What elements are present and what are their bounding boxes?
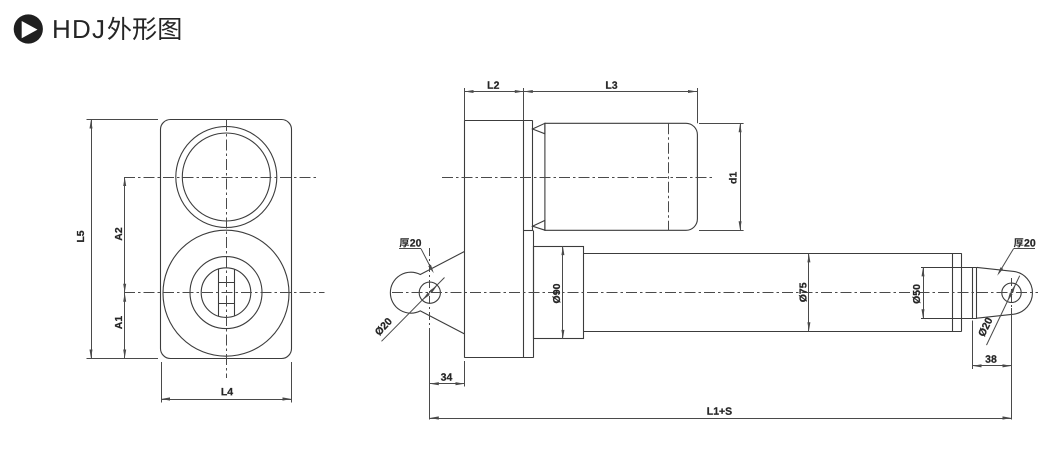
motor body (545, 123, 698, 230)
piston rod (921, 268, 977, 319)
front hole vertical centerline (1011, 278, 1013, 308)
rear hole vertical centerline (429, 248, 431, 330)
svg-text:38: 38 (985, 354, 997, 366)
main axis centerline (392, 292, 1038, 294)
svg-text:34: 34 (441, 372, 453, 384)
svg-text:L3: L3 (605, 80, 617, 92)
lower boss outer circle (163, 230, 289, 356)
dimension L2 (465, 80, 524, 121)
svg-text:L4: L4 (221, 386, 233, 398)
lower bore circle (201, 268, 251, 318)
dimension L5 (75, 120, 158, 359)
svg-text:d1: d1 (727, 172, 739, 184)
gearbox cylinder (534, 247, 584, 339)
svg-text:Ø90: Ø90 (551, 283, 563, 303)
svg-text:HDJ: HDJ (52, 14, 106, 44)
outer tube (584, 253, 962, 331)
front view mounting plate (161, 120, 292, 359)
front hole extension line (1011, 308, 1013, 420)
dimension A2 (113, 177, 126, 293)
upper horizontal centerline (124, 177, 317, 179)
dimension L1+S (430, 406, 1012, 420)
label diameter 20 rear (373, 278, 445, 342)
screw slot (218, 269, 235, 316)
svg-text:20: 20 (1024, 237, 1036, 249)
motor brush line (668, 123, 670, 230)
svg-text:Ø75: Ø75 (798, 282, 810, 302)
motor flange plate (524, 120, 534, 357)
svg-text:L5: L5 (75, 230, 87, 242)
motor axis centerline (442, 177, 712, 179)
svg-text:A1: A1 (113, 316, 125, 330)
dimension diameter 75 (798, 253, 811, 331)
svg-text:A2: A2 (113, 227, 125, 241)
svg-text:20: 20 (410, 237, 422, 249)
rear hole extension line (429, 330, 431, 420)
label thickness 20 rear (399, 237, 434, 273)
front clevis base (973, 267, 977, 318)
lower horizontal centerline front view (124, 292, 325, 294)
upper bore inner circle (182, 133, 270, 221)
motor clamp mark top (533, 123, 545, 134)
upper bore outer circle (176, 127, 277, 228)
front clevis body (977, 267, 1033, 318)
dimension A1 (113, 293, 126, 359)
dimension d1 (699, 123, 744, 230)
svg-text:L2: L2 (487, 80, 499, 92)
dimension 38 (973, 321, 1012, 370)
vertical centerline front view (226, 120, 228, 378)
dimension diameter 90 (551, 246, 565, 339)
dimension 34 (430, 361, 465, 387)
motor clamp mark bottom (533, 220, 545, 230)
dimension L4 (161, 362, 292, 403)
dimension diameter 50 (911, 267, 924, 318)
gear housing block (465, 120, 534, 357)
label thickness 20 front (997, 237, 1036, 275)
rear clevis hole (419, 282, 440, 303)
rear clevis plate (390, 252, 464, 334)
svg-text:L1+S: L1+S (707, 406, 732, 418)
title play icon (14, 14, 43, 43)
lower boss middle circle (190, 257, 262, 329)
title text HDJ outline drawing (52, 14, 180, 44)
label diameter 20 front (976, 276, 1020, 345)
dimension L3 (524, 80, 698, 124)
front clevis hole (1002, 283, 1021, 302)
svg-text:Ø50: Ø50 (911, 284, 923, 304)
